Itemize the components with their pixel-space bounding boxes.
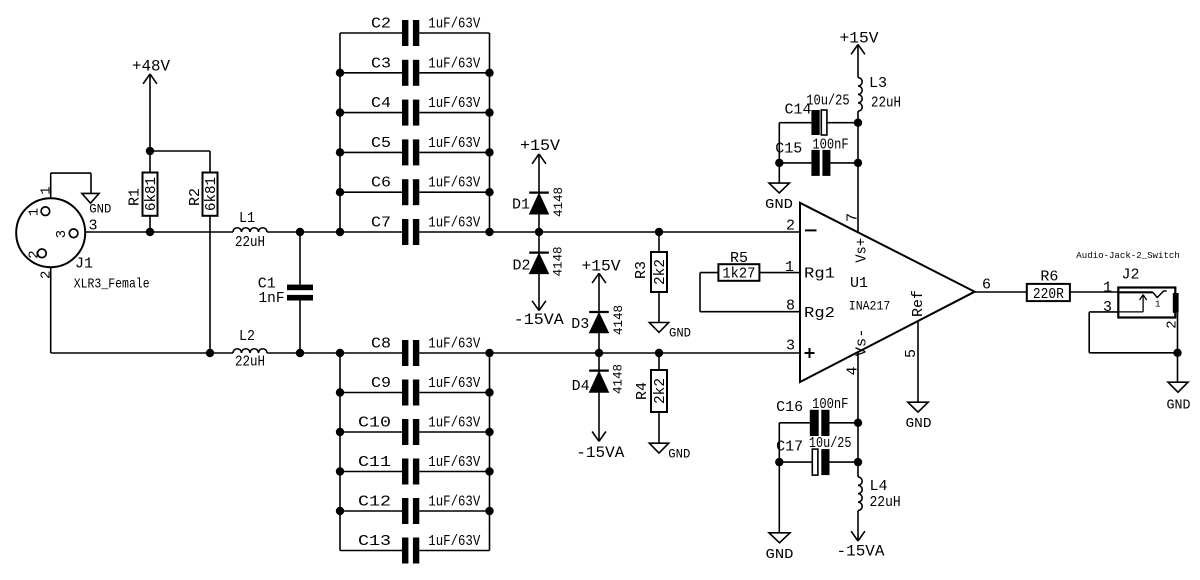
svg-text:1: 1 [26, 208, 42, 216]
svg-text:5: 5 [903, 349, 920, 358]
svg-text:1uF/63V: 1uF/63V [428, 16, 480, 33]
svg-text:1uF/63V: 1uF/63V [428, 454, 480, 471]
svg-text:2: 2 [26, 250, 42, 258]
svg-text:1uF/63V: 1uF/63V [428, 55, 480, 72]
svg-text:R2: R2 [187, 188, 204, 206]
svg-text:L4: L4 [870, 478, 888, 495]
svg-text:C17: C17 [776, 439, 803, 456]
svg-text:1nF: 1nF [259, 290, 285, 307]
svg-text:C11: C11 [358, 454, 391, 471]
svg-text:3: 3 [54, 230, 70, 238]
svg-text:10u/25: 10u/25 [806, 92, 850, 109]
svg-text:L1: L1 [239, 210, 255, 227]
svg-text:-15VA: -15VA [514, 311, 564, 329]
svg-text:XLR3_Female: XLR3_Female [74, 277, 150, 293]
svg-text:4148: 4148 [611, 305, 626, 335]
svg-text:Rg1: Rg1 [804, 266, 835, 283]
svg-text:+15V: +15V [582, 258, 621, 276]
svg-text:1uF/63V: 1uF/63V [428, 533, 480, 550]
svg-text:4148: 4148 [551, 187, 566, 217]
svg-text:R3: R3 [633, 261, 650, 279]
svg-text:J2: J2 [1122, 267, 1140, 284]
svg-text:22uH: 22uH [235, 234, 265, 251]
svg-text:+15V: +15V [840, 30, 879, 48]
svg-text:1: 1 [785, 259, 794, 276]
svg-text:GND: GND [668, 446, 690, 461]
svg-text:C10: C10 [358, 415, 391, 432]
svg-text:1uF/63V: 1uF/63V [428, 175, 480, 192]
svg-text:4: 4 [845, 366, 862, 375]
svg-text:2k2: 2k2 [652, 378, 669, 404]
svg-text:L3: L3 [869, 75, 887, 92]
svg-text:J1: J1 [75, 256, 93, 273]
svg-text:Rg2: Rg2 [804, 305, 835, 322]
svg-text:C4: C4 [371, 95, 391, 112]
svg-text:4148: 4148 [551, 247, 566, 277]
svg-text:1: 1 [1155, 299, 1161, 310]
svg-text:100nF: 100nF [812, 137, 848, 154]
svg-text:3: 3 [88, 218, 97, 235]
svg-text:GND: GND [669, 326, 691, 341]
svg-text:R5: R5 [730, 250, 748, 267]
svg-text:C3: C3 [371, 55, 391, 72]
svg-text:Vs-: Vs- [853, 328, 870, 356]
svg-text:1uF/63V: 1uF/63V [428, 494, 480, 511]
svg-text:7: 7 [845, 213, 862, 222]
svg-text:6: 6 [982, 277, 991, 294]
svg-text:GND: GND [89, 202, 111, 217]
svg-text:6k81: 6k81 [143, 177, 160, 211]
svg-text:D2: D2 [513, 258, 531, 275]
svg-text:C8: C8 [371, 336, 391, 353]
svg-text:1: 1 [1103, 279, 1112, 296]
svg-text:D1: D1 [512, 197, 530, 214]
svg-text:8: 8 [786, 298, 795, 315]
svg-text:100nF: 100nF [812, 396, 848, 413]
svg-text:3: 3 [1103, 299, 1112, 316]
svg-text:Audio-Jack-2_Switch: Audio-Jack-2_Switch [1076, 251, 1180, 261]
svg-text:1uF/63V: 1uF/63V [428, 336, 480, 353]
svg-text:220R: 220R [1033, 286, 1064, 303]
svg-text:C12: C12 [358, 494, 391, 511]
svg-text:GND: GND [766, 547, 794, 563]
svg-text:1uF/63V: 1uF/63V [428, 135, 480, 152]
svg-text:GND: GND [906, 416, 932, 432]
svg-text:+48V: +48V [132, 58, 170, 76]
svg-text:GND: GND [1167, 397, 1191, 413]
svg-text:R1: R1 [127, 188, 144, 206]
svg-text:C2: C2 [371, 16, 391, 33]
svg-text:C7: C7 [371, 215, 391, 232]
svg-text:1uF/63V: 1uF/63V [428, 215, 480, 232]
svg-text:D3: D3 [571, 316, 589, 333]
svg-text:3: 3 [786, 338, 795, 355]
svg-text:U1: U1 [850, 275, 868, 292]
svg-text:1uF/63V: 1uF/63V [428, 415, 480, 432]
svg-text:D4: D4 [572, 378, 590, 395]
svg-text:2: 2 [1164, 320, 1180, 328]
svg-text:C5: C5 [371, 135, 391, 152]
svg-text:Vs+: Vs+ [853, 238, 870, 263]
svg-text:INA217: INA217 [849, 299, 891, 314]
svg-text:C6: C6 [371, 175, 391, 192]
svg-text:+15V: +15V [520, 137, 560, 155]
svg-text:-15VA: -15VA [837, 543, 885, 561]
svg-text:22uH: 22uH [870, 494, 901, 511]
svg-text:R6: R6 [1040, 268, 1058, 285]
svg-text:2: 2 [38, 271, 54, 279]
svg-text:22uH: 22uH [235, 353, 265, 370]
svg-text:Ref: Ref [910, 290, 927, 317]
svg-text:-15VA: -15VA [576, 444, 624, 462]
svg-text:6k81: 6k81 [203, 177, 220, 211]
svg-text:2: 2 [786, 218, 795, 235]
svg-text:10u/25: 10u/25 [809, 435, 852, 452]
svg-text:C16: C16 [776, 399, 803, 416]
svg-text:L2: L2 [239, 328, 255, 345]
svg-text:C9: C9 [371, 375, 391, 392]
svg-text:22uH: 22uH [871, 95, 901, 112]
svg-text:C15: C15 [775, 141, 802, 158]
svg-text:4148: 4148 [610, 364, 625, 394]
svg-text:GND: GND [765, 197, 793, 213]
svg-text:C13: C13 [358, 533, 391, 550]
svg-text:1uF/63V: 1uF/63V [428, 95, 480, 112]
svg-text:2k2: 2k2 [652, 259, 669, 285]
svg-text:1: 1 [38, 186, 54, 194]
svg-text:R4: R4 [634, 382, 651, 400]
svg-text:1uF/63V: 1uF/63V [428, 375, 480, 392]
svg-text:1k27: 1k27 [722, 266, 755, 283]
